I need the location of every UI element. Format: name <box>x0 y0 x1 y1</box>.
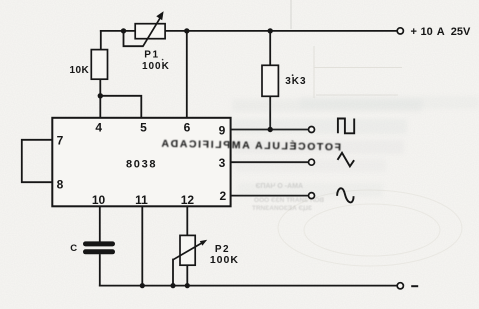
capacitor C plate bottom <box>86 249 113 254</box>
svg-text:+: + <box>411 26 417 38</box>
resistor R1 10K body <box>91 50 107 80</box>
wire pin 9 output <box>231 129 309 131</box>
svg-text:C: C <box>70 243 77 254</box>
junction dot rail-3K3 <box>268 28 273 33</box>
speck near P1 <box>162 59 164 61</box>
svg-text:11: 11 <box>135 193 148 207</box>
wire rail to 3K3 <box>269 31 271 65</box>
svg-text:25V: 25V <box>451 26 471 38</box>
svg-text:12: 12 <box>181 193 195 207</box>
sine wave symbol <box>337 188 353 202</box>
junction dot rail-wiper <box>121 28 126 33</box>
svg-text:9: 9 <box>219 123 226 137</box>
terminal triangle output <box>309 159 315 165</box>
show-through text band (mirrored, faint) <box>160 137 341 154</box>
speck above 3K3 <box>292 74 294 76</box>
wire bottom bus <box>100 285 397 287</box>
svg-text:A: A <box>437 26 445 38</box>
terminal minus <box>397 283 403 289</box>
label +10 A 25V <box>411 26 472 38</box>
svg-text:3K3: 3K3 <box>285 76 306 87</box>
square wave symbol <box>338 119 354 134</box>
show-through page stripes <box>232 96 479 197</box>
show-through ghost box <box>314 46 402 98</box>
triangle wave symbol <box>338 153 355 167</box>
wire P1 wiper bracket <box>124 31 143 46</box>
op IC U1 8038 body <box>52 118 230 207</box>
capacitor C plate top <box>86 241 113 246</box>
wire pin 12 to P2 <box>186 206 188 235</box>
wire 3K3 to pin 9 line <box>269 96 271 129</box>
wire P2 wiper to bus <box>172 260 174 286</box>
wire P2 bottom to bus <box>186 265 188 285</box>
wire junction to pin 5 <box>100 96 141 118</box>
junction dot 3K3-pin9 <box>268 127 273 132</box>
potentiometer P2 wiper arrow <box>173 240 207 260</box>
show-through faint small lines <box>252 183 324 212</box>
junction dot 10K-pin4-pin5 <box>98 93 103 98</box>
svg-text:10: 10 <box>92 193 106 207</box>
svg-text:P1: P1 <box>144 50 159 61</box>
wire pin 10 to capacitor <box>99 206 101 241</box>
svg-text:100K: 100K <box>142 61 170 72</box>
potentiometer P1 wiper arrow <box>143 11 164 46</box>
svg-text:2: 2 <box>219 189 226 203</box>
junction dot bus-P2 bottom <box>185 283 190 288</box>
svg-text:8: 8 <box>57 177 64 191</box>
svg-text:AМА- О ЧАПЭ: AМА- О ЧАПЭ <box>255 183 303 190</box>
junction dot rail-pin6 <box>184 28 189 33</box>
svg-text:10: 10 <box>421 26 433 38</box>
svg-text:4: 4 <box>95 120 102 134</box>
svg-text:100K: 100K <box>210 254 239 266</box>
wire pins 7-8 strap <box>22 140 53 182</box>
wire capacitor to bottom bus <box>99 255 101 286</box>
show-through swirl <box>278 190 462 266</box>
svg-text:5: 5 <box>140 120 147 134</box>
wire 10K bottom to pin 4 <box>99 79 101 118</box>
wire pin 3 output <box>231 161 309 163</box>
wire 10K top stub <box>100 31 102 49</box>
svg-text:10K: 10K <box>70 65 90 76</box>
resistor R2 3K3 body <box>262 65 278 96</box>
svg-text:8038: 8038 <box>126 159 157 171</box>
potentiometer P1 body <box>135 24 165 39</box>
terminal +V <box>397 28 403 34</box>
junction dot bus-P2 wiper <box>170 283 175 288</box>
wire top rail <box>101 30 397 32</box>
svg-text:ЗЦЭ АЕЗОИАЗИЯТ: ЗЦЭ АЕЗОИАЗИЯТ <box>252 205 312 212</box>
label minus <box>411 285 418 287</box>
wire pin 11 to bus <box>141 206 143 285</box>
show-through vertical crease <box>290 0 292 29</box>
terminal sine output <box>309 193 315 199</box>
svg-text:3: 3 <box>219 156 226 170</box>
svg-text:6: 6 <box>184 120 191 134</box>
terminal square output <box>309 127 315 133</box>
wire pin 2 output <box>231 195 309 197</box>
wire pin 6 to rail <box>186 31 188 118</box>
junction dot bus-pin11 <box>140 283 145 288</box>
svg-text:7: 7 <box>57 133 64 147</box>
potentiometer P2 body <box>180 235 195 265</box>
